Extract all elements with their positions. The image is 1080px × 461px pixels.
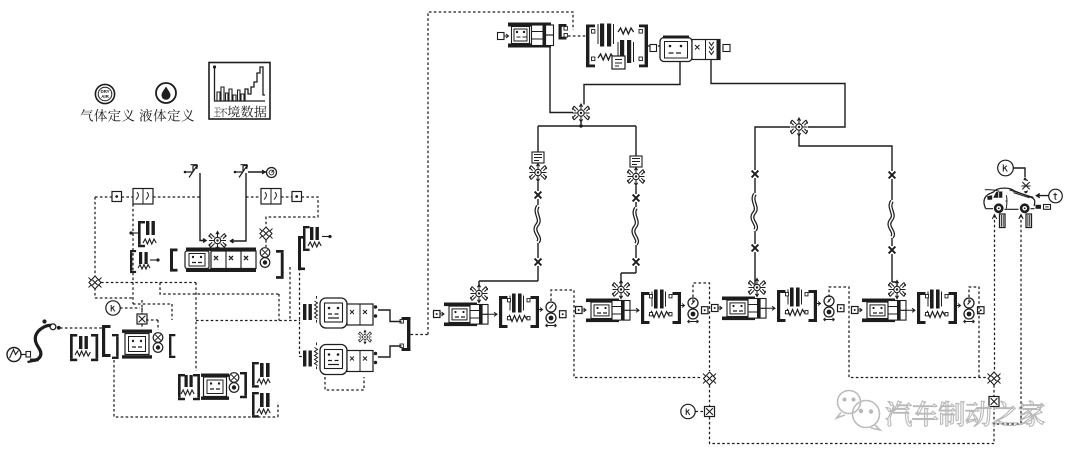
k3 link xyxy=(1013,168,1025,177)
check valve CV2 xyxy=(234,165,248,178)
wheel speed lines xyxy=(995,215,1022,424)
sensor k3 xyxy=(998,160,1014,176)
V1 outlet tee xyxy=(538,122,636,156)
watermark text 汽车制动之家 xyxy=(886,401,1044,426)
driver signal source xyxy=(7,348,31,362)
spring unit S1 xyxy=(129,221,156,247)
sensor k1 xyxy=(106,301,120,315)
compressor C1 xyxy=(498,23,568,48)
gauge stack GS2 xyxy=(153,333,163,353)
vehicle body xyxy=(984,188,1051,213)
gas definition icon xyxy=(95,84,114,103)
relay R2 to bracket wire xyxy=(378,346,402,357)
brake line chain 4 xyxy=(799,134,892,171)
sensor k2 xyxy=(681,404,695,418)
cluster RR sensor line xyxy=(969,287,979,377)
sensor t1 xyxy=(1049,189,1063,203)
governor port B line xyxy=(711,60,845,128)
ambient data label 环境数据 xyxy=(214,106,267,118)
hand/pedal valve body xyxy=(122,330,152,359)
brake actuator cluster RR xyxy=(852,281,985,325)
liquid definition label 液体定义 xyxy=(140,109,195,122)
relay valve R1 (front circuit) xyxy=(303,296,377,328)
brake pedal xyxy=(28,319,61,362)
spring stack S7 xyxy=(252,392,270,418)
foot valve solenoid V0 xyxy=(209,232,227,250)
filter F1 xyxy=(133,189,153,205)
ambient data block xyxy=(209,63,270,120)
control line to hand valve xyxy=(195,283,197,372)
dryer to governor line xyxy=(648,45,660,47)
bracket B4 xyxy=(112,334,119,359)
gauge G1 xyxy=(267,168,277,178)
wire cv1 down to foot valve pilot xyxy=(200,173,206,242)
wire cv2 to gauge xyxy=(248,170,266,174)
port box P1 xyxy=(112,192,122,202)
brake actuator cluster FL xyxy=(434,285,567,329)
junction diamond J1 xyxy=(703,372,716,385)
control line JA east xyxy=(101,282,196,284)
supply drop line xyxy=(94,197,96,276)
solenoid valve V3 xyxy=(630,156,642,167)
compressor outlet line xyxy=(550,48,573,113)
diamond junction JA xyxy=(89,276,102,289)
cluster FL sensor line xyxy=(551,290,701,378)
relay bottom dashed loop xyxy=(325,377,364,390)
brake line chain 2 xyxy=(635,186,637,194)
pedal link xyxy=(60,327,102,329)
t1 link xyxy=(1037,194,1049,198)
converter X4 xyxy=(1022,177,1031,193)
watermark wechat icon xyxy=(837,391,881,431)
governor C2 xyxy=(650,36,730,62)
converter X1 xyxy=(137,314,147,324)
air dryer D1 xyxy=(586,24,648,70)
spring unit S5 xyxy=(178,374,200,400)
bracket B6 xyxy=(240,372,247,398)
brake actuator cluster RL xyxy=(712,279,845,323)
brake line chain 3 xyxy=(755,127,790,170)
solenoid valve V2 xyxy=(532,152,544,163)
bracket B2 xyxy=(298,236,305,270)
hand valve pilot lines xyxy=(114,360,278,417)
relay pilot drop xyxy=(300,268,304,357)
svg-text:AIR: AIR xyxy=(101,94,109,99)
bracket to governor dashed xyxy=(411,334,429,336)
check valve CV1 xyxy=(184,165,198,178)
tire element left xyxy=(1000,214,1006,228)
solenoid between relays xyxy=(358,330,371,344)
bracket B3 xyxy=(102,325,111,357)
converter X3 xyxy=(989,397,999,407)
spring stack S6 xyxy=(252,362,270,388)
brake actuator cluster FR xyxy=(576,281,709,325)
cluster RL sensor line xyxy=(829,287,987,378)
gauge stack GS3 xyxy=(229,373,239,393)
pneumatic line P1-F1 xyxy=(95,196,292,198)
relay outlet bracket B7 xyxy=(400,317,411,351)
governor port A line xyxy=(584,62,680,105)
protection valve V1 xyxy=(572,104,590,122)
foot brake valve body xyxy=(170,248,256,273)
spring unit S3 xyxy=(303,226,332,251)
filter F2 xyxy=(261,189,281,205)
brake line chain 1 xyxy=(537,182,539,191)
protection valve V4 xyxy=(790,118,808,136)
control line JA branch xyxy=(160,283,279,321)
spring unit S4 xyxy=(70,334,98,361)
port box P2 xyxy=(292,192,302,202)
tire element right xyxy=(1026,214,1032,228)
relay valve R2 (rear circuit) xyxy=(303,343,377,375)
gas definition label 气体定义 xyxy=(81,109,135,122)
relay R1 to bracket wire xyxy=(378,310,402,322)
spring unit S2 xyxy=(130,250,160,273)
liquid definition icon xyxy=(156,83,176,103)
bracket B1 xyxy=(276,250,284,279)
diamond junction JB xyxy=(260,227,273,240)
pneumatic line P2 to dryer pilot xyxy=(266,197,318,227)
hand valve body xyxy=(201,374,229,400)
governor control loop xyxy=(428,12,573,335)
cluster FR sensor line xyxy=(693,283,710,371)
junction diamond J2 xyxy=(988,372,1001,385)
C1 to dryer line xyxy=(568,35,586,37)
wire cv2 down to foot valve pilot xyxy=(231,173,247,243)
bracket B5 xyxy=(169,334,175,358)
converter X2 xyxy=(705,407,715,417)
gauge stack GS1 xyxy=(260,248,270,268)
